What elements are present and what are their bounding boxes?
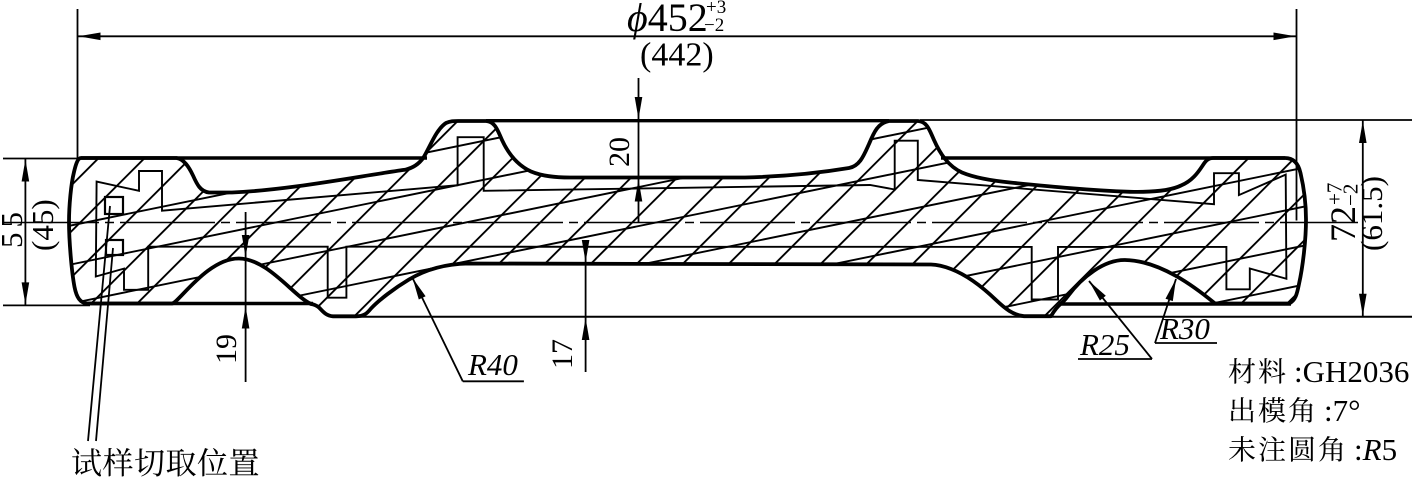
silhouette edge: dish rim between humps [486,119,889,122]
centerline (axis, dash-dot) [4,222,1358,224]
extension line: hub top level right [920,119,1412,121]
machined part profile (thin line inside forging) [96,137,1287,299]
label R40 with leader [413,278,426,299]
silhouette edge: left rim bottom under arc [88,302,313,305]
svg-text::R5: :R5 [1354,432,1397,467]
svg-text:R30: R30 [1159,311,1210,346]
notes block bottom right [1229,358,1255,384]
svg-text:−2: −2 [704,15,724,36]
dimension 72 +7/-2 and (61.5) right [1362,120,1364,317]
svg-text:19: 19 [210,334,243,364]
svg-text:(45): (45) [25,199,60,251]
reference line: forging bottom plane [332,316,1412,318]
silhouette edge: right rim top [941,156,1285,159]
dimension 55 left [24,159,26,306]
dimension phi452 top [77,9,79,163]
svg-text:(442): (442) [640,37,714,74]
dimension 19 [245,212,247,382]
svg-text:20: 20 [603,137,636,167]
forging section outline (thick) [69,121,1306,316]
svg-text::GH2036: :GH2036 [1294,354,1409,389]
svg-text:R40: R40 [467,347,518,382]
dimension 17 [585,240,587,372]
svg-text:R25: R25 [1079,327,1130,362]
svg-text:17: 17 [546,339,579,369]
leaders to sample label [88,206,110,441]
sample cut squares (test specimen positions) [105,197,123,214]
dimension 20 (dish depth) [638,78,640,223]
svg-text:ϕ452: ϕ452 [627,0,708,40]
label R25 with leader [1089,281,1106,301]
svg-text:(61.5): (61.5) [1354,176,1389,251]
label: sample cutting position (CJK) [72,448,101,476]
svg-text::7°: :7° [1324,393,1361,428]
extension line: rim bottom level left [3,304,90,306]
label R30 with leader [1166,279,1177,301]
extension line: rim top level left [3,158,83,160]
silhouette edge: right rim bottom under arc [1059,302,1291,305]
silhouette edge: left rim top [81,156,427,159]
